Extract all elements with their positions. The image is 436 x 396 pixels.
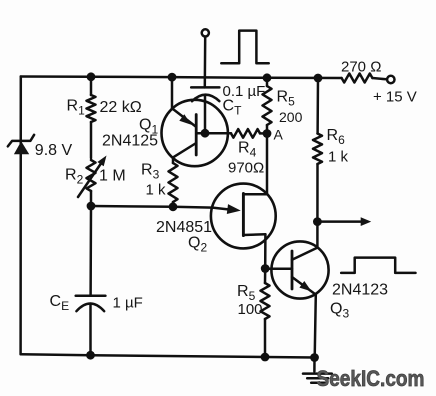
junction R1/top rail (87, 72, 96, 81)
wire Q2 base1 down to Q3 base node (264, 234, 267, 268)
svg-text:1 M: 1 M (99, 168, 126, 185)
wire R5 bottom to node A (266, 125, 269, 134)
junction Q1 base/CT (201, 129, 210, 138)
resistor R6 1k (313, 134, 322, 165)
wire R5 top stub (266, 78, 269, 86)
junction R5/top rail (263, 73, 272, 82)
wire node to R5(100) top (264, 269, 267, 284)
svg-text:1 k: 1 k (328, 149, 349, 166)
junction ground/bottom rail (310, 353, 319, 362)
wire R2 bottom stub (90, 191, 93, 206)
svg-text:1 k: 1 k (146, 182, 167, 199)
wire Q3 base node to Q3 (265, 268, 292, 271)
wire R1 to R2 (90, 122, 93, 158)
ground (303, 358, 332, 383)
svg-text:SeekIC.com: SeekIC.com (317, 366, 425, 391)
input pulse waveform (221, 31, 268, 64)
wire R1 top stub (90, 77, 93, 95)
wire Q1 emitter up to rail (171, 77, 174, 109)
junction output branch (313, 217, 322, 226)
svg-text:100: 100 (238, 301, 263, 318)
junction CE/bottom rail (86, 351, 95, 360)
node A (263, 129, 272, 138)
wire bottom rail (21, 354, 315, 357)
wire node A down to Q2 base2 (266, 134, 269, 195)
wire Q3 emitter down to rail (315, 295, 316, 358)
capacitor CE (76, 296, 106, 311)
wire output branch (317, 220, 362, 223)
svg-text:+ 15 V: + 15 V (373, 89, 417, 106)
svg-text:A: A (274, 127, 284, 143)
transistor Q2 2N4851 (UJT) (211, 184, 276, 249)
wire 270 ohm to +15V terminal (372, 78, 386, 79)
resistor R1 22k (87, 95, 96, 122)
wire CT bottom to Q1 base node (204, 96, 207, 134)
wire R3 bottom stub (172, 202, 175, 207)
junction R5(100)/bottom rail (261, 353, 270, 362)
resistor R2 1M (variable) (87, 160, 96, 191)
wire CE bottom to rail (89, 304, 92, 356)
output arrowhead (361, 217, 372, 226)
svg-text:270 Ω: 270 Ω (341, 59, 381, 76)
resistor R5 100 (261, 283, 270, 319)
terminal +15V (open circle) (387, 76, 394, 83)
output pulse waveform (341, 258, 415, 273)
transistor Q3 2N4123 (271, 241, 328, 298)
wire R4 to node A (260, 132, 267, 135)
wire mid rail (R2/R3 bottoms to Q2 emitter) (91, 206, 213, 208)
junction R3/mid rail (169, 202, 178, 211)
transistor Q1 2N4125 (162, 100, 232, 166)
arrow of variable resistor R2 (78, 161, 103, 198)
svg-text:2N4851: 2N4851 (156, 219, 212, 236)
terminal input (open circle) (202, 29, 209, 36)
svg-text:1 µF: 1 µF (113, 295, 143, 312)
junction R2/CE (87, 202, 96, 211)
wire R6 bottom to Q3 collector (316, 164, 319, 248)
wire input terminal down to CT (204, 37, 207, 88)
resistor 270 ohm (342, 74, 373, 83)
svg-text:2N4125: 2N4125 (102, 133, 158, 150)
capacitor CT (191, 87, 219, 101)
svg-text:970Ω: 970Ω (228, 160, 264, 177)
svg-text:200: 200 (279, 109, 303, 125)
resistor R5 200 (263, 86, 272, 125)
svg-text:22 kΩ: 22 kΩ (100, 99, 142, 116)
wire Q1 collector to R3 (172, 157, 175, 163)
wire R5(100) bottom to rail (264, 319, 267, 357)
junction Q3 base node (261, 264, 270, 273)
zener diode 9.8V (8, 135, 34, 155)
svg-text:2N4123: 2N4123 (332, 282, 388, 299)
wire left vertical bus (19, 77, 22, 355)
wire top rail (21, 77, 342, 79)
junction R6/top rail (314, 74, 323, 83)
wire R2 node down to CE (89, 206, 92, 296)
wire rail to R6 (316, 78, 319, 134)
resistor R3 1k (169, 163, 178, 202)
resistor R4 970 ohm (231, 129, 260, 138)
junction Q1 emitter/top rail (168, 73, 177, 82)
svg-text:9.8 V: 9.8 V (35, 142, 73, 159)
